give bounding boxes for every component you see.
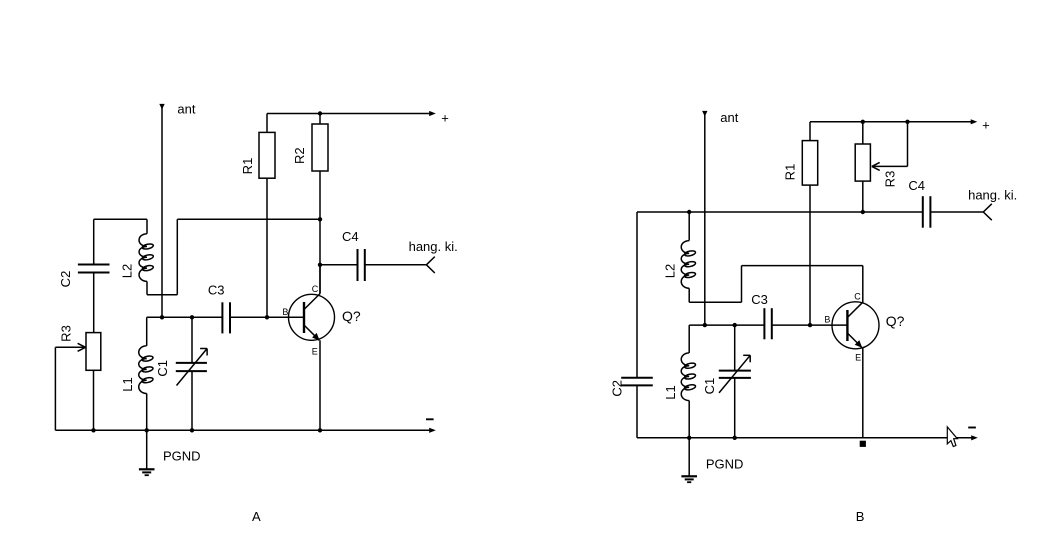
svg-text:PGND: PGND — [706, 456, 744, 471]
wire L2 bottom to collector B — [689, 266, 863, 303]
label minus (A) — [426, 418, 434, 420]
svg-text:C3: C3 — [208, 283, 225, 298]
svg-text:B: B — [824, 314, 830, 324]
node dot R1-base A — [265, 315, 269, 319]
capacitor C2 (A) — [78, 219, 110, 332]
capacitor C2 (B) — [621, 212, 653, 438]
capacitor C1 variable (B) — [719, 325, 751, 438]
svg-text:C: C — [854, 292, 861, 302]
node dot feedback A — [318, 217, 322, 221]
wire feedback L2-collector A — [177, 218, 320, 220]
label minus (B) — [968, 427, 976, 429]
svg-text:+: + — [441, 110, 449, 125]
speaker terminal A — [426, 257, 434, 273]
node dot C4 tap A — [318, 263, 322, 267]
svg-text:C2: C2 — [610, 380, 625, 397]
svg-text:R1: R1 — [240, 158, 255, 175]
resistor R2 (A) — [312, 114, 328, 294]
capacitor C3 (A) — [222, 302, 304, 333]
svg-text:C1: C1 — [702, 378, 717, 395]
inductor L2 (B) — [681, 212, 696, 302]
node dot C1-bus B — [733, 436, 737, 440]
wire base node B — [689, 324, 764, 326]
svg-text:C2: C2 — [58, 271, 73, 288]
svg-text:Q?: Q? — [886, 313, 905, 329]
svg-text:ant: ant — [720, 110, 738, 125]
antenna terminal B — [702, 111, 707, 325]
svg-text:C4: C4 — [342, 229, 359, 244]
node dot ant-base A — [160, 315, 164, 319]
svg-text:L2: L2 — [120, 264, 135, 278]
mouse cursor — [947, 427, 957, 447]
node dot C1-base B — [733, 323, 737, 327]
node dot R3 rail B — [861, 120, 865, 124]
svg-text:R2: R2 — [292, 147, 307, 164]
svg-text:B: B — [856, 509, 865, 524]
svg-text:C3: C3 — [751, 292, 768, 307]
node dot ant-base B — [703, 323, 707, 327]
wire ground bus A — [55, 428, 435, 433]
resistor R3 trimmer (A) — [86, 333, 101, 431]
svg-text:A: A — [252, 509, 261, 524]
node dot R3-bus A — [91, 428, 95, 432]
node square emitter-bus B — [860, 441, 866, 447]
node dot C1-bus A — [190, 428, 194, 432]
node dot L2 top B — [687, 210, 691, 214]
wire ground bus B — [637, 435, 978, 440]
ground PGND (A) — [139, 430, 155, 475]
svg-text:R3: R3 — [883, 171, 898, 188]
ground PGND (B) — [681, 438, 697, 482]
svg-text:Q?: Q? — [342, 308, 361, 324]
svg-text:L1: L1 — [120, 377, 135, 391]
capacitor C4 (B) — [923, 196, 984, 228]
transistor Q? (A) — [289, 265, 335, 431]
svg-text:L1: L1 — [663, 385, 678, 399]
node dot rail A — [318, 111, 322, 115]
node dot R1-base B — [808, 323, 812, 327]
svg-text:B: B — [282, 307, 288, 317]
transistor Q? (B) — [832, 302, 879, 438]
node dot emitter-bus A — [318, 428, 322, 432]
capacitor C3 (B) — [764, 308, 847, 339]
wire L2 bottom to feedback A — [147, 219, 177, 294]
resistor R1 (A) — [259, 114, 275, 318]
wiper arrow wire R3 (A) — [55, 343, 85, 430]
antenna terminal A — [159, 104, 164, 317]
svg-text:E: E — [312, 347, 318, 357]
wire C2-L2 top A — [94, 218, 147, 220]
svg-text:L2: L2 — [663, 264, 678, 278]
wiper arrow wire R3 (B) — [872, 122, 908, 171]
node dot L1-bus B — [687, 436, 691, 440]
svg-text:C: C — [312, 284, 319, 294]
svg-text:hang. ki.: hang. ki. — [409, 239, 458, 254]
wire +V rail B — [810, 119, 977, 124]
capacitor C1 variable (A) — [176, 317, 207, 430]
svg-text:R1: R1 — [783, 164, 798, 181]
node dot R3 bottom B — [861, 210, 865, 214]
capacitor C4 (A) — [320, 249, 426, 281]
inductor L2 (A) — [139, 219, 154, 294]
svg-text:C1: C1 — [155, 360, 170, 377]
resistor R1 (B) — [802, 122, 817, 325]
svg-text:PGND: PGND — [163, 448, 201, 463]
wire base node A — [147, 316, 223, 318]
resistor R3 trimmer (B) — [855, 122, 870, 212]
node dot wiper rail B — [905, 120, 909, 124]
svg-text:E: E — [855, 352, 861, 362]
inductor L1 (B) — [681, 325, 696, 438]
wire +V rail A — [267, 111, 436, 116]
node dot L1-bus A — [145, 428, 149, 432]
svg-text:+: + — [982, 118, 990, 133]
svg-text:R3: R3 — [59, 325, 74, 342]
inductor L1 (A) — [139, 317, 154, 430]
svg-text:ant: ant — [177, 102, 195, 117]
svg-text:hang. ki.: hang. ki. — [968, 187, 1017, 202]
svg-text:C4: C4 — [908, 178, 925, 193]
speaker terminal B — [983, 204, 992, 220]
node dot C1-base A — [190, 315, 194, 319]
wire supply node B — [637, 211, 923, 213]
